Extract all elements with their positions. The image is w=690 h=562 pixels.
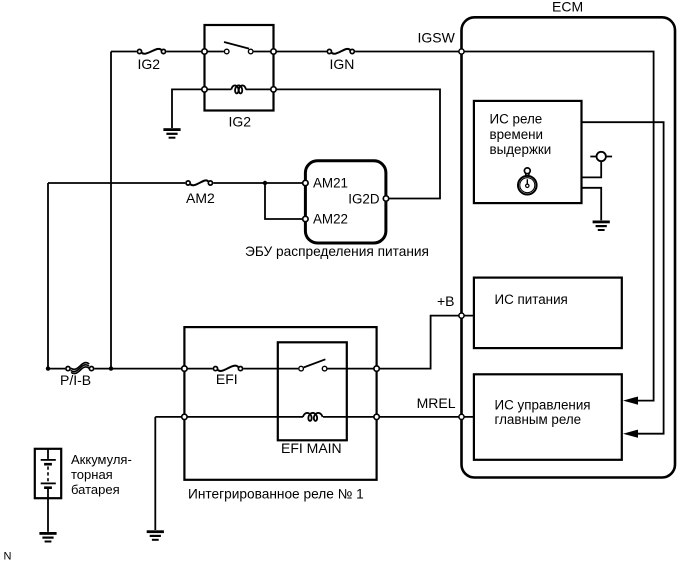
wire: MREL coil row lead left bbox=[155, 416, 181, 418]
wire: relay to IGN fuse bbox=[277, 51, 327, 53]
wire: vertical feed x=111 down to P/I-B row bbox=[110, 52, 112, 369]
battery internals bbox=[41, 449, 56, 498]
svg-text:Интегрированное реле № 1: Интегрированное реле № 1 bbox=[188, 486, 364, 501]
pin IGSW (ECM connector) bbox=[459, 49, 464, 54]
wire: vertical feed x=48 down to battery row bbox=[47, 183, 49, 369]
svg-text:торная: торная bbox=[71, 467, 113, 482]
fuse EFI bbox=[213, 366, 242, 371]
ground G3 (battery) bbox=[39, 532, 56, 543]
wire: P/I-B to integrated relay bbox=[94, 368, 181, 370]
svg-text:MREL: MREL bbox=[417, 395, 456, 411]
arrow into main relay control IC (from IGSW) bbox=[623, 397, 638, 405]
pin AM21 bbox=[303, 180, 308, 185]
ECM box U-ECM bbox=[462, 17, 676, 477]
svg-text:EFI: EFI bbox=[216, 371, 238, 387]
svg-text:ЭБУ распределения питания: ЭБУ распределения питания bbox=[245, 244, 429, 259]
svg-text:N: N bbox=[4, 550, 12, 562]
ground G4 (ECM internal) bbox=[593, 221, 610, 232]
svg-text:+B: +B bbox=[437, 293, 455, 309]
power distribution ECU box (EBU) bbox=[305, 161, 386, 243]
wire: EFI row lead bbox=[187, 368, 212, 370]
svg-text:IG2: IG2 bbox=[138, 56, 161, 72]
timer relay IC box bbox=[474, 101, 582, 203]
power supply IC box bbox=[474, 278, 622, 349]
wire: coil row inside relay bbox=[187, 416, 373, 418]
coil L2 (EFI MAIN) bbox=[303, 413, 323, 421]
terminal (relay box left, EFI row) bbox=[182, 366, 187, 371]
wire: coil row leads bbox=[207, 88, 271, 90]
svg-text:выдержки: выдержки bbox=[490, 142, 552, 157]
junction dot (battery feed) bbox=[46, 366, 50, 370]
svg-text:IG2: IG2 bbox=[229, 113, 252, 129]
EFI MAIN relay box bbox=[278, 342, 347, 440]
switch S2 blade bbox=[304, 359, 326, 367]
svg-text:AM21: AM21 bbox=[313, 176, 348, 191]
ground G2 (integrated relay coil) bbox=[147, 530, 164, 541]
pin IG2D bbox=[383, 196, 388, 201]
junction dot (IG2 feed) bbox=[109, 366, 113, 370]
relay IG2 box bbox=[205, 25, 274, 111]
pin +B (ECM connector) bbox=[459, 313, 464, 318]
junction dot (AM2 branch) bbox=[263, 181, 267, 185]
fuse AM2 bbox=[186, 180, 212, 185]
svg-text:IGN: IGN bbox=[330, 56, 355, 72]
wire: IGSW inside ECM to arrow on main relay control IC bbox=[462, 52, 654, 401]
switch S1 blade bbox=[224, 42, 249, 49]
wire: top-left feed corner to IG2 fuse bbox=[111, 51, 137, 53]
terminal (relay box left, coil row) bbox=[182, 414, 187, 419]
wire: EFI fuse to switch bbox=[243, 368, 298, 370]
ground G1 (relay coil) bbox=[163, 128, 180, 139]
wire: coil left to ground bbox=[172, 89, 202, 128]
wire: switch row leads bbox=[207, 51, 271, 53]
switch S2 contacts bbox=[299, 366, 304, 371]
arrow into main relay control IC (from timer IC) bbox=[623, 430, 638, 438]
svg-text:времени: времени bbox=[490, 127, 544, 142]
relay IG2 terminals top bbox=[202, 49, 207, 54]
wire: timer IC to internal ground bbox=[581, 188, 601, 221]
pin MREL (ECM connector) bbox=[459, 414, 464, 419]
wire: relay coil ground drop bbox=[154, 417, 156, 530]
svg-text:ECM: ECM bbox=[552, 0, 583, 15]
terminal (relay box right, coil row) bbox=[374, 414, 379, 419]
svg-text:Аккумуля-: Аккумуля- bbox=[71, 452, 132, 467]
svg-text:IG2D: IG2D bbox=[348, 191, 380, 206]
svg-text:AM22: AM22 bbox=[313, 212, 348, 227]
terminal symbol (circle with bar) bbox=[590, 152, 612, 161]
svg-text:ИС питания: ИС питания bbox=[495, 292, 568, 307]
pin AM22 bbox=[303, 216, 308, 221]
wire: timer IC to terminal symbol bbox=[581, 161, 601, 177]
svg-text:главным реле: главным реле bbox=[495, 412, 582, 427]
wire: MREL to ECM bbox=[380, 416, 474, 418]
svg-text:P/I-B: P/I-B bbox=[60, 372, 91, 388]
svg-text:ИС управления: ИС управления bbox=[495, 397, 591, 412]
coil L1 (IG2 relay) bbox=[231, 85, 246, 93]
switch S1 contacts bbox=[224, 49, 229, 54]
wire: IG2 fuse to relay box bbox=[166, 51, 204, 53]
main relay control IC box bbox=[474, 374, 622, 460]
fuse IGN bbox=[327, 49, 354, 54]
wire: switch to relay box right bbox=[328, 368, 374, 370]
svg-text:AM2: AM2 bbox=[186, 190, 215, 206]
terminal (relay box right, EFI row) bbox=[374, 366, 379, 371]
wire: IGN fuse to ECM IGSW pin bbox=[355, 51, 458, 53]
wire: battery to ground bbox=[47, 498, 49, 532]
svg-text:EFI MAIN: EFI MAIN bbox=[281, 440, 342, 456]
wire: branch down to AM22 pin bbox=[265, 183, 303, 219]
battery BAT box bbox=[35, 449, 61, 498]
wire: P/I-B row left bbox=[48, 368, 65, 370]
stopwatch icon bbox=[518, 168, 537, 195]
wire: AM2 fuse to AM21 pin bbox=[213, 182, 302, 184]
svg-text:IGSW: IGSW bbox=[418, 30, 456, 46]
integrated relay no.1 box bbox=[184, 327, 376, 480]
wire: AM2 row from left corner bbox=[48, 182, 185, 184]
wire: timer IC to arrow on main relay control IC bbox=[581, 122, 664, 434]
relay IG2 terminals bottom bbox=[202, 87, 207, 92]
svg-text:ИС реле: ИС реле bbox=[490, 112, 543, 127]
fuse IG2 bbox=[137, 49, 165, 54]
svg-text:батарея: батарея bbox=[71, 482, 120, 497]
fusible link P/I-B bbox=[66, 363, 94, 374]
wire: +B feed to ECM bbox=[380, 316, 474, 369]
wire: coil right to IG2D bbox=[277, 89, 441, 198]
